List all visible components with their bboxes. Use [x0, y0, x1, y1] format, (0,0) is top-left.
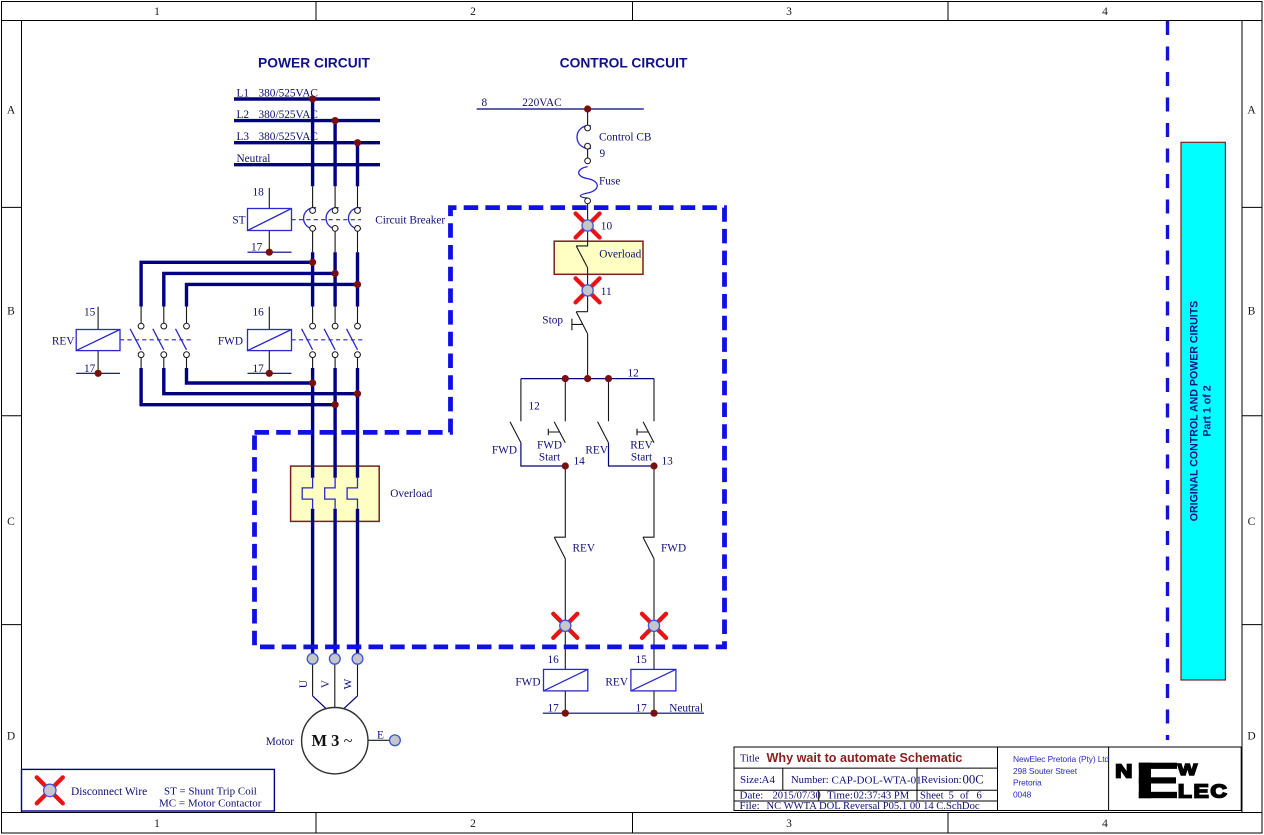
svg-text:NC WWTA DOL Reversal P05.1: NC WWTA DOL Reversal P05.1 00 14 C.SchDo…	[767, 801, 980, 812]
svg-text:File:: File:	[740, 800, 760, 812]
svg-text:380/525VAC: 380/525VAC	[259, 109, 318, 121]
svg-text:FWD: FWD	[515, 677, 540, 689]
svg-text:L1: L1	[237, 87, 250, 99]
svg-text:Sheet5of6: Sheet5of6	[920, 791, 982, 802]
svg-text:Overload: Overload	[390, 488, 432, 500]
svg-text:L2: L2	[237, 109, 250, 121]
svg-text:D: D	[7, 731, 15, 743]
svg-text:FWD: FWD	[661, 543, 686, 555]
svg-text:16: 16	[253, 307, 265, 319]
svg-text:Neutral: Neutral	[669, 703, 703, 715]
svg-text:Circuit Breaker: Circuit Breaker	[375, 215, 445, 227]
svg-text:U: U	[298, 680, 310, 688]
svg-text:3: 3	[786, 818, 792, 830]
svg-text:9: 9	[600, 148, 606, 160]
svg-text:02:37:43 PM: 02:37:43 PM	[854, 791, 910, 802]
svg-text:REV: REV	[52, 336, 75, 348]
svg-text:380/525VAC: 380/525VAC	[259, 131, 318, 143]
svg-text:380/525VAC: 380/525VAC	[259, 87, 318, 99]
svg-text:14: 14	[574, 456, 586, 468]
svg-text:FWD: FWD	[492, 445, 517, 457]
svg-text:W: W	[1178, 760, 1198, 778]
svg-text:17: 17	[548, 703, 560, 715]
svg-text:ST = Shunt Trip Coil: ST = Shunt Trip Coil	[164, 786, 257, 798]
svg-text:00C: 00C	[963, 773, 984, 787]
svg-text:FWD: FWD	[218, 336, 243, 348]
svg-text:D: D	[1247, 731, 1255, 743]
svg-text:B: B	[1248, 306, 1256, 318]
svg-text:16: 16	[548, 654, 560, 666]
svg-text:N: N	[1115, 761, 1132, 782]
svg-text:E: E	[377, 730, 384, 742]
svg-text:8: 8	[482, 97, 488, 109]
svg-text:Disconnect Wire: Disconnect Wire	[71, 786, 147, 798]
svg-text:2: 2	[470, 818, 476, 830]
svg-text:12: 12	[529, 401, 541, 413]
svg-text:REV: REV	[573, 543, 596, 555]
svg-text:A4: A4	[762, 774, 776, 786]
svg-text:11: 11	[601, 286, 612, 298]
svg-text:MC = Motor Contactor: MC = Motor Contactor	[159, 797, 262, 809]
svg-text:Time:: Time:	[827, 790, 853, 802]
svg-text:15: 15	[84, 307, 96, 319]
svg-text:Part 1 of 2: Part 1 of 2	[1202, 385, 1214, 436]
svg-text:4: 4	[1102, 818, 1108, 830]
svg-text:C: C	[1248, 516, 1256, 528]
svg-text:17: 17	[84, 363, 96, 375]
svg-text:2: 2	[470, 6, 476, 18]
svg-text:Fuse: Fuse	[599, 176, 620, 188]
svg-text:10: 10	[601, 221, 613, 233]
svg-text:Revision:: Revision:	[921, 775, 962, 786]
svg-text:FWD: FWD	[537, 440, 562, 452]
svg-text:0048: 0048	[1013, 789, 1032, 799]
svg-text:Size:: Size:	[740, 774, 762, 786]
svg-text:17: 17	[251, 242, 263, 254]
svg-text:CAP-DOL-WTA-01: CAP-DOL-WTA-01	[832, 775, 922, 787]
svg-text:Overload: Overload	[599, 249, 641, 261]
svg-text:3: 3	[786, 6, 792, 18]
svg-text:LEC: LEC	[1178, 781, 1229, 802]
svg-text:17: 17	[253, 363, 265, 375]
svg-text:NewElec Pretoria (Pty) Ltd: NewElec Pretoria (Pty) Ltd	[1013, 754, 1110, 764]
svg-text:ORIGINAL CONTROL AND POWER CIR: ORIGINAL CONTROL AND POWER CIRUITS	[1189, 301, 1201, 522]
svg-text:Neutral: Neutral	[237, 153, 271, 165]
svg-text:Start: Start	[631, 452, 653, 464]
svg-text:L3: L3	[237, 131, 250, 143]
svg-text:18: 18	[253, 186, 265, 198]
svg-text:15: 15	[636, 654, 648, 666]
svg-text:W: W	[343, 678, 355, 689]
svg-text:220VAC: 220VAC	[522, 97, 561, 109]
svg-text:REV: REV	[605, 677, 628, 689]
svg-text:A: A	[7, 105, 16, 117]
svg-text:V: V	[320, 679, 332, 688]
svg-text:Motor: Motor	[266, 736, 294, 748]
svg-text:Start: Start	[539, 452, 561, 464]
svg-text:13: 13	[662, 456, 674, 468]
svg-text:Title: Title	[740, 754, 760, 765]
svg-text:12: 12	[628, 368, 640, 380]
svg-text:Pretoria: Pretoria	[1013, 778, 1042, 788]
svg-text:298 Souter Street: 298 Souter Street	[1013, 766, 1078, 776]
svg-text:Why wait to automate Schematic: Why wait to automate Schematic	[767, 751, 963, 765]
svg-text:M 3 ~: M 3 ~	[311, 731, 352, 750]
svg-text:17: 17	[636, 703, 648, 715]
svg-text:CONTROL CIRCUIT: CONTROL CIRCUIT	[560, 56, 688, 71]
svg-text:ST: ST	[232, 215, 245, 227]
svg-text:POWER CIRCUIT: POWER CIRCUIT	[258, 56, 370, 71]
svg-text:Control CB: Control CB	[599, 132, 651, 144]
svg-text:REV: REV	[630, 440, 653, 452]
svg-text:1: 1	[154, 818, 160, 830]
svg-text:1: 1	[154, 6, 160, 18]
svg-text:C: C	[7, 516, 15, 528]
svg-text:4: 4	[1102, 6, 1108, 18]
svg-text:Number:: Number:	[791, 775, 829, 786]
svg-text:Stop: Stop	[542, 315, 563, 327]
svg-text:A: A	[1247, 105, 1256, 117]
svg-text:REV: REV	[585, 445, 608, 457]
svg-text:B: B	[7, 306, 15, 318]
svg-text:2015/07/30: 2015/07/30	[773, 791, 821, 802]
